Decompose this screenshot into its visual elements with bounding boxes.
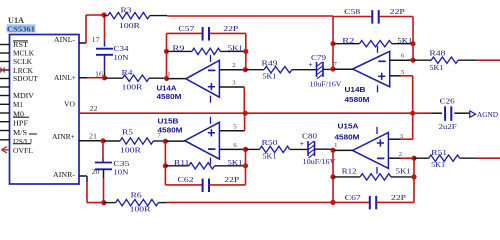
op-amp U14B 4580M [345, 46, 390, 104]
capacitor C62 22P [165, 175, 245, 192]
wire C67/R12 right column to pin 2 [413, 158, 415, 202]
svg-text:CS5361: CS5361 [7, 24, 35, 33]
svg-text:2: 2 [399, 151, 402, 158]
U1A left pin names [13, 40, 38, 155]
svg-text:R49: R49 [262, 58, 278, 67]
U15B output node (pin 7) [157, 133, 185, 144]
svg-text:7: 7 [334, 61, 338, 68]
svg-text:4580M: 4580M [158, 125, 183, 134]
svg-text:10uF/16V: 10uF/16V [310, 80, 343, 89]
svg-text:6: 6 [233, 142, 237, 149]
svg-text:10N: 10N [114, 53, 130, 62]
pin 16 AINL+ stub [79, 77, 105, 79]
wire C57/R9 right column to pin 2 [245, 33, 247, 69]
node AINL+ / R4 [102, 75, 107, 80]
op-amp U15B 4580M [158, 116, 220, 164]
svg-text:HPF: HPF [13, 119, 28, 128]
svg-text:5K1: 5K1 [228, 158, 243, 167]
svg-text:MCLK: MCLK [13, 49, 35, 58]
svg-text:R12: R12 [342, 166, 357, 175]
svg-text:I2S/LJ: I2S/LJ [13, 137, 32, 146]
node R3/C34/AINL- junction [101, 12, 106, 17]
svg-text:+: + [308, 60, 312, 69]
resistor R49 5K1 [245, 58, 316, 80]
no-connect X on LRCK pin [0, 68, 5, 73]
wire AINL input from right edge [477, 59, 500, 61]
svg-text:1: 1 [167, 71, 170, 78]
svg-text:C34: C34 [114, 44, 129, 53]
svg-text:R6: R6 [131, 191, 142, 200]
svg-text:C79: C79 [311, 53, 326, 62]
svg-text:100R: 100R [130, 204, 151, 213]
capacitor C67 22P [333, 193, 414, 209]
wire AINR- down to R6 row [87, 176, 104, 203]
svg-text:C26: C26 [440, 96, 455, 105]
AGND power port [470, 110, 499, 119]
right pin numbers 17 16 22 21 20 [89, 36, 104, 176]
OVFL output arrow [2, 147, 10, 153]
capacitor C35 10N [95, 159, 130, 176]
svg-text:M1: M1 [13, 100, 23, 109]
svg-text:100R: 100R [122, 82, 143, 91]
svg-text:R5: R5 [122, 127, 133, 136]
svg-text:5K1: 5K1 [228, 44, 243, 53]
wire R6 to U15A output column [167, 201, 334, 203]
wire node down to C34 [104, 15, 106, 47]
op-amp U14A 4580M [157, 55, 220, 103]
svg-text:5: 5 [233, 124, 237, 131]
wire AINR input from right edge [477, 157, 500, 159]
designator U1A [8, 16, 24, 25]
wire C34 down to pin 16 [104, 55, 106, 78]
capacitor C57 22P [167, 24, 246, 41]
electrolytic capacitor C80 10uF/16V [300, 132, 337, 166]
U14B pin 5 wire down to VO rail [390, 69, 413, 113]
wire AINR+ node down to C35 [102, 141, 104, 163]
svg-text:R2: R2 [342, 36, 354, 45]
resistor R9 5K1 [164, 44, 249, 55]
rail junction at U14B/U15A [410, 111, 415, 116]
part number CS5361 (highlighted) [7, 24, 36, 33]
svg-text:C58: C58 [344, 7, 360, 16]
svg-text:MDIV: MDIV [13, 91, 35, 100]
rail junction at U14A/U15B [243, 111, 248, 116]
svg-text:AINR-: AINR- [53, 170, 76, 179]
svg-text:R3: R3 [121, 5, 132, 14]
U15A output node (pin 1) [330, 142, 352, 153]
capacitor C58 22P [333, 7, 413, 23]
resistor R48 5K1 [413, 49, 477, 73]
svg-text:5K1: 5K1 [263, 152, 277, 161]
svg-text:3: 3 [232, 79, 236, 86]
svg-text:C62: C62 [178, 175, 194, 184]
IC U1A CS5361 body [10, 35, 80, 185]
svg-text:AINL-: AINL- [54, 35, 76, 44]
svg-text:U14B: U14B [345, 85, 366, 94]
node rail/R6 at U15A output column [330, 200, 335, 205]
resistor R50 5K1 [246, 138, 309, 160]
svg-text:22P: 22P [390, 7, 405, 16]
svg-text:R11: R11 [174, 158, 189, 167]
svg-text:R50: R50 [262, 138, 278, 147]
electrolytic capacitor C79 10uF/16V [308, 53, 342, 89]
resistor R2 5K1 [330, 36, 415, 47]
U15A pin 3 wire up to VO rail [388, 113, 412, 140]
svg-text:10N: 10N [113, 167, 129, 176]
node AINR+ / R5 / C35 [100, 138, 105, 143]
U14B pin 6 wire [390, 53, 416, 63]
svg-text:2: 2 [232, 62, 235, 69]
svg-text:R4: R4 [122, 68, 133, 77]
wire C58/R2 right column to pin 6 [412, 17, 414, 61]
svg-text:2u2F: 2u2F [439, 122, 457, 131]
svg-text:21: 21 [89, 133, 98, 141]
svg-text:22P: 22P [224, 175, 239, 184]
svg-text:100R: 100R [120, 146, 141, 155]
svg-text:5K1: 5K1 [396, 166, 411, 175]
svg-text:4580M: 4580M [335, 132, 360, 141]
pin 17 AINL- stub [10, 43, 87, 45]
pin 21 AINR+ stub [79, 140, 103, 142]
svg-text:100R: 100R [119, 21, 140, 30]
svg-text:10uF/16V: 10uF/16V [303, 157, 337, 166]
svg-text:1: 1 [334, 142, 337, 149]
node AINR- / R6 [101, 200, 106, 205]
feedback wire U15B output down to R11/C62 [164, 141, 166, 185]
svg-text:22: 22 [90, 105, 99, 113]
resistor R12 5K1 [330, 166, 416, 180]
svg-text:+: + [300, 139, 304, 148]
U1A right pin names [52, 35, 76, 179]
svg-text:5K1: 5K1 [429, 63, 443, 72]
feedback wire U15A output down to R12/C67 [332, 150, 334, 202]
capacitor C34 [96, 44, 129, 62]
svg-text:AINR+: AINR+ [52, 132, 75, 141]
U14B output node (pin 7) [330, 61, 352, 72]
svg-text:M/S: M/S [13, 128, 27, 137]
U15B pin 5 wire up to VO rail [219, 113, 244, 131]
svg-text:22P: 22P [223, 24, 238, 33]
resistor R11 5K1 [163, 158, 248, 169]
resistor R51 5K1 [414, 148, 477, 169]
svg-text:AGND: AGND [477, 110, 498, 119]
resistor R5 100R [103, 127, 165, 154]
svg-text:C57: C57 [178, 24, 194, 33]
svg-text:U15A: U15A [338, 121, 360, 130]
svg-text:OVFL: OVFL [13, 146, 33, 155]
U14A output node (pin 1) [164, 71, 186, 81]
svg-text:5K1: 5K1 [397, 36, 412, 45]
feedback wire U14B output up to R2/C58 [332, 17, 334, 70]
svg-text:17: 17 [92, 36, 101, 44]
resistor R3 100R [104, 5, 167, 30]
U14A pin 2 (inverting input) wire [219, 62, 248, 72]
U1A left pin stubs [0, 45, 10, 140]
U15B pin 6 wire [219, 142, 248, 152]
svg-text:5K1: 5K1 [431, 160, 445, 169]
svg-text:4580M: 4580M [157, 92, 182, 101]
svg-text:C67: C67 [345, 193, 361, 202]
svg-text:C80: C80 [302, 132, 317, 141]
svg-text:VO: VO [64, 100, 76, 109]
wire R3 to U14B output node [167, 15, 333, 17]
pin 20 AINR- stub [79, 175, 87, 177]
capacitor C26 2u2F [432, 96, 470, 130]
wire C35 down to R6 node [103, 169, 105, 202]
feedback wire U14A output up to R9/C57 [166, 33, 168, 78]
resistor R4 100R [105, 68, 167, 91]
svg-text:R48: R48 [429, 49, 445, 58]
svg-text:U15B: U15B [158, 116, 179, 125]
svg-text:R9: R9 [172, 44, 184, 53]
svg-text:5K1: 5K1 [263, 71, 277, 80]
svg-text:4580M: 4580M [345, 95, 370, 104]
op-amp U15A 4580M [335, 121, 389, 174]
svg-text:SDOUT: SDOUT [13, 74, 38, 83]
svg-text:6: 6 [401, 53, 405, 60]
U14A pin 3 wire down to VO rail [219, 79, 244, 113]
wire AINL- up to R3 node [86, 15, 104, 43]
svg-text:AINL+: AINL+ [54, 73, 76, 82]
wire C62/R11 right column to pin 6 [245, 149, 247, 185]
resistor R6 100R [104, 191, 167, 214]
VO common-mode rail (pin 22) [79, 112, 432, 114]
svg-text:5: 5 [401, 69, 405, 76]
svg-text:22P: 22P [391, 193, 406, 202]
U15A pin 2 wire [388, 151, 416, 161]
svg-text:R51: R51 [431, 148, 447, 157]
